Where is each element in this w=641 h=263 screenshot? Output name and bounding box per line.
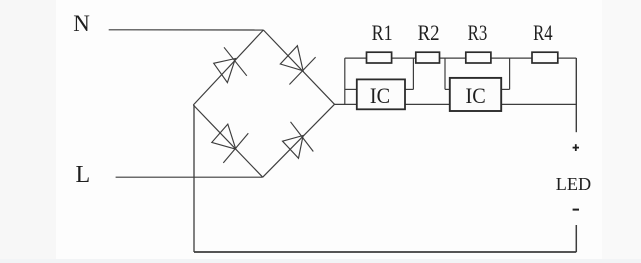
svg-text:L: L (75, 162, 90, 188)
svg-text:R1: R1 (372, 20, 393, 45)
svg-text:R2: R2 (418, 20, 440, 45)
svg-text:R4: R4 (533, 20, 553, 45)
svg-text:LED: LED (556, 174, 591, 194)
svg-text:R3: R3 (468, 20, 488, 45)
svg-text:IC: IC (370, 83, 390, 108)
svg-text:N: N (73, 11, 90, 36)
svg-text:IC: IC (466, 83, 486, 108)
